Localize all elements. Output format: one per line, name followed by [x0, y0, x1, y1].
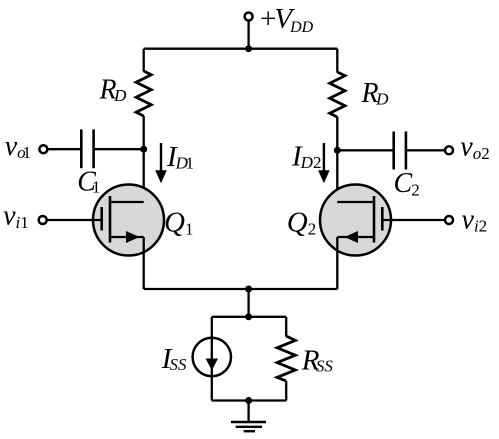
wire C1 to drain node: [94, 148, 144, 150]
terminal vi2: [445, 216, 453, 224]
current arrow ID2: [323, 143, 325, 172]
wire vi2 to Q2 gate: [382, 219, 444, 221]
junction drain node Q2: [334, 147, 341, 154]
terminal vo1: [39, 145, 47, 153]
Q1 drain lead: [110, 201, 144, 203]
terminal vo2: [445, 146, 453, 154]
capacitor C1: [80, 129, 83, 168]
wire source rail: [144, 288, 338, 290]
Q1 source lead: [110, 236, 144, 238]
wire Q2 source down: [336, 237, 338, 289]
junction tail node: [245, 313, 252, 320]
Q1 channel bar: [109, 196, 112, 243]
wire through ISS: [211, 317, 213, 401]
capacitor C2: [392, 132, 395, 170]
Q1 gate bar: [100, 207, 103, 231]
transistor Q1 body: [93, 185, 164, 256]
current arrow ID1: [160, 143, 162, 172]
Q2 source arrow: [345, 231, 359, 243]
terminal +VDD: [245, 13, 253, 21]
ground: [231, 421, 266, 423]
wire drain node to C2: [337, 149, 393, 151]
wire source rail to tail node: [247, 289, 249, 317]
resistor RD1: [136, 71, 151, 116]
resistor RD2: [330, 72, 345, 117]
wire tail rail: [212, 316, 286, 318]
wire vo1 to C1: [48, 148, 81, 150]
junction source rail: [245, 286, 252, 293]
wire to ground: [247, 401, 249, 422]
wire RD1 to Q1 drain: [143, 116, 145, 202]
current source ISS: [193, 338, 231, 376]
terminal vi1: [39, 216, 47, 224]
junction top rail: [245, 45, 252, 52]
ISS arrow head: [206, 359, 218, 371]
wire vi1 to Q1 gate: [47, 219, 101, 221]
junction drain node Q1: [140, 146, 147, 153]
Q2 gate bar: [381, 207, 384, 231]
wire top rail to RD1: [143, 49, 145, 72]
resistor RSS: [277, 336, 295, 381]
wire Q1 source down: [143, 237, 145, 289]
junction bottom rail: [245, 397, 252, 404]
wire VDD terminal to top rail: [247, 21, 249, 48]
wire bottom rail: [212, 399, 286, 401]
Q2 source lead: [337, 236, 374, 238]
wire top rail to RD2: [336, 49, 338, 73]
transistor Q2 body: [320, 185, 391, 256]
wire RSS to bottom rail: [285, 381, 287, 401]
wire tail rail to RSS: [285, 317, 287, 337]
Q2 channel bar: [373, 196, 376, 243]
wire top rail: [144, 48, 338, 50]
Q1 source arrow: [126, 231, 140, 243]
Q2 drain lead: [337, 201, 374, 203]
wire RD2 to Q2 drain: [336, 117, 338, 202]
wire C2 to vo2: [406, 149, 444, 151]
